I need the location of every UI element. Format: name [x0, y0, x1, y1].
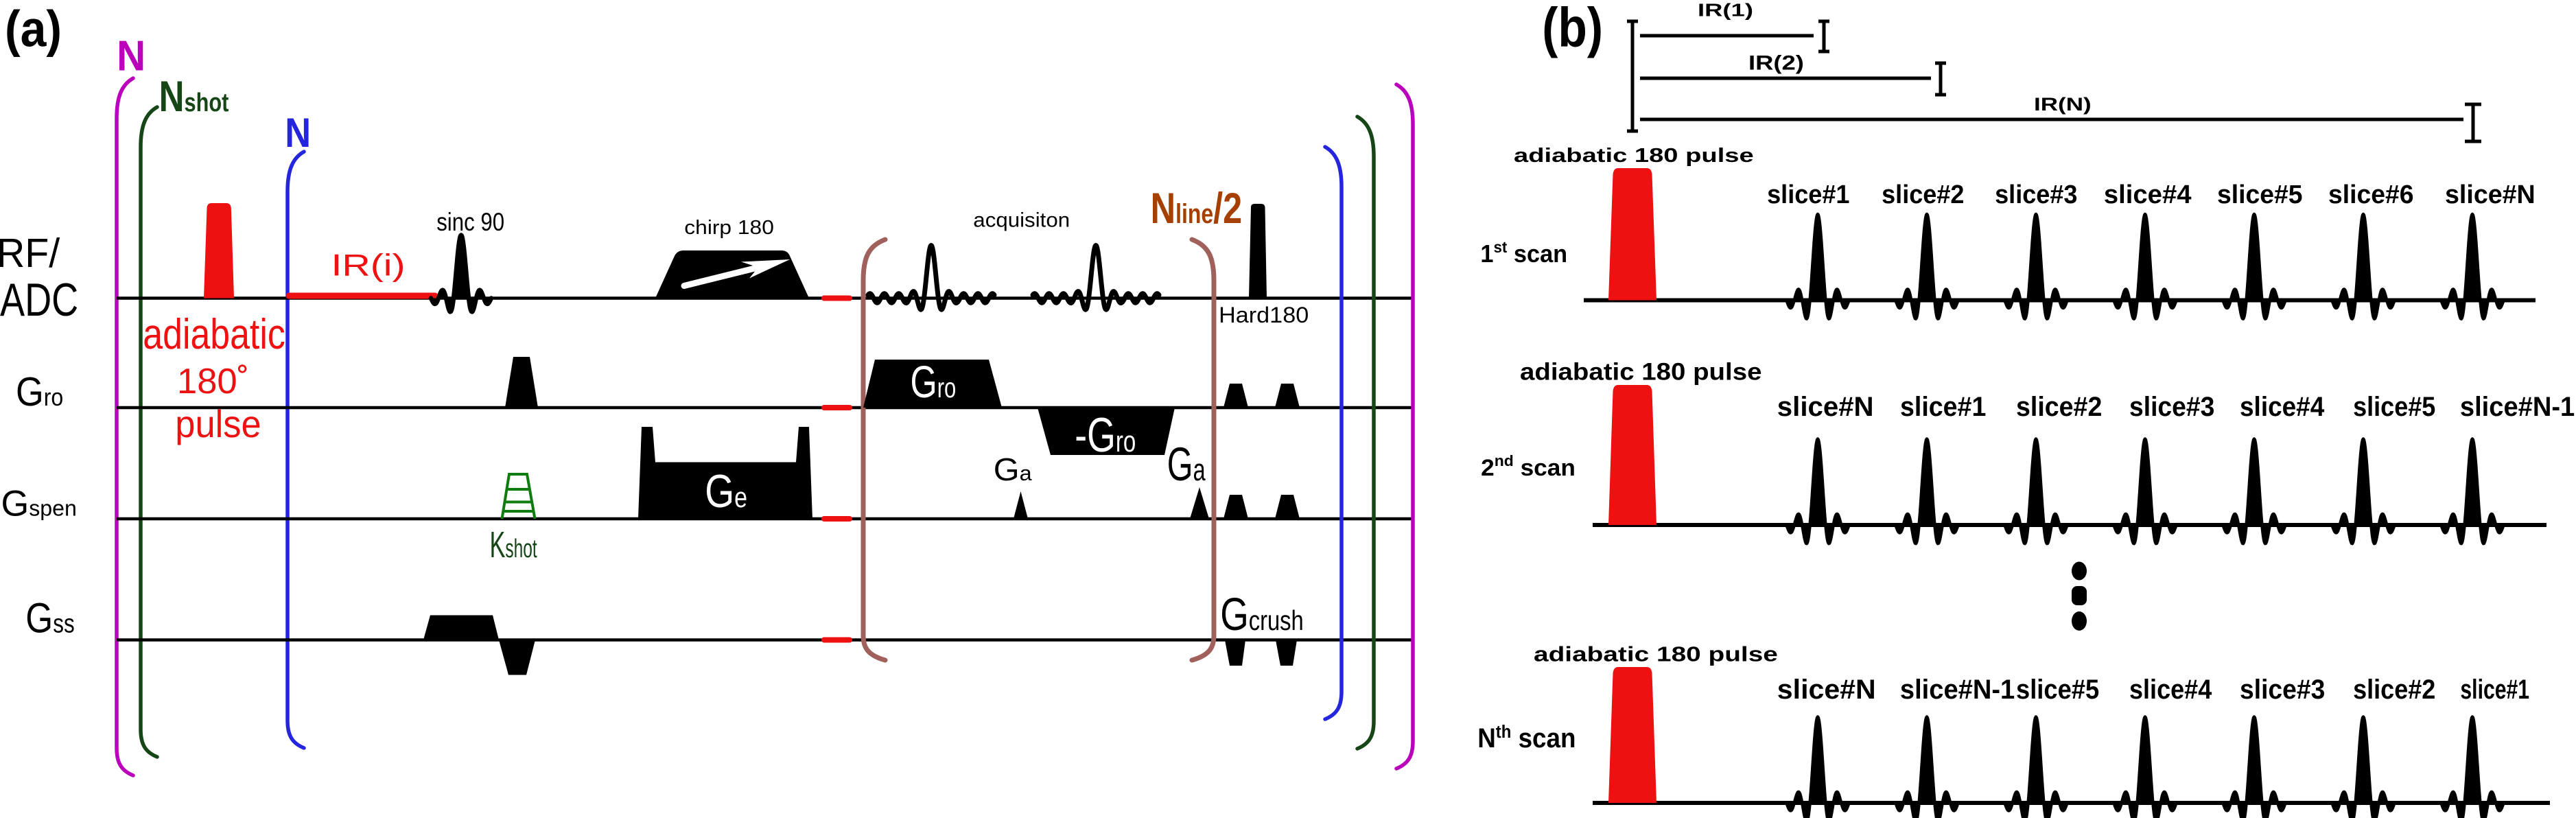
label slice#6 (1st scan, position 6) — [2328, 180, 2414, 210]
svg-text:slice#3: slice#3 — [1995, 179, 2077, 209]
svg-text:(a): (a) — [5, 1, 62, 58]
label IR(i) — [331, 248, 406, 283]
Nth scan baseline wire — [1593, 801, 2550, 805]
label adiabatic 180 pulse (1st scan) — [1514, 145, 1754, 166]
label adiabatic 180 pulse (red text) — [143, 311, 285, 358]
svg-text:IR(1): IR(1) — [1698, 0, 1753, 20]
chirp frequency-sweep arrow (white) — [684, 266, 763, 286]
red break dash on Gro line — [824, 405, 850, 410]
svg-text:slice#N: slice#N — [1777, 674, 1876, 705]
svg-text:180˚: 180˚ — [177, 362, 249, 401]
Gcrush crusher 2 (below Gss line) — [1276, 640, 1297, 666]
Gss rephase trapezoid (negative) — [499, 640, 535, 675]
svg-text:Kshot: Kshot — [490, 524, 537, 565]
axis label Gspen — [1, 484, 77, 524]
Gss slice-select trapezoid (positive) — [423, 616, 499, 640]
svg-text:slice#1: slice#1 — [1767, 179, 1849, 209]
2nd scan adiabatic 180 pulse (red) — [1608, 385, 1656, 525]
svg-text:slice#4: slice#4 — [2104, 180, 2192, 209]
closing bracket N (blue, right) — [1325, 147, 1342, 719]
label slice#5 (Nth scan, position 3) — [2016, 675, 2099, 705]
label Ga 2 — [1167, 438, 1206, 491]
Gro baseline wire — [117, 406, 1414, 410]
red break dash on Gss line — [824, 638, 850, 643]
1st scan slice sinc pulse 1 — [1787, 214, 1849, 319]
Nth scan slice sinc pulse 4 — [2114, 717, 2176, 818]
repetition bracket N (blue, left) — [288, 152, 304, 748]
1st scan slice sinc pulse 2 — [1896, 214, 1958, 319]
vertical ellipsis dots — [2072, 562, 2087, 631]
IR(N) delay line — [1640, 118, 2463, 121]
label Nth scan — [1477, 722, 1576, 753]
Gro crusher trapezoid 2 — [1275, 384, 1300, 408]
acquisition echo wavelet 2 — [1033, 246, 1159, 310]
IR(1) end marker — [1818, 21, 1829, 51]
label 2nd scan — [1481, 452, 1576, 480]
svg-text:slice#N-1: slice#N-1 — [1900, 675, 2015, 705]
IR(2) delay line — [1640, 77, 1931, 80]
svg-text:sinc 90: sinc 90 — [436, 209, 504, 237]
svg-text:slice#2: slice#2 — [2016, 392, 2102, 422]
IR(i) red delay segment on RF line — [289, 293, 435, 299]
svg-text:slice#5: slice#5 — [2353, 392, 2435, 422]
svg-text:(b): (b) — [1542, 0, 1603, 58]
svg-text:Gro: Gro — [16, 369, 63, 414]
1st scan slice sinc pulse 5 — [2223, 214, 2285, 319]
label slice#3 (1st scan, position 3) — [1995, 179, 2077, 209]
svg-text:Ga: Ga — [994, 452, 1032, 488]
label Kshot (dark green) — [490, 524, 537, 565]
axis label RF/ADC — [0, 231, 60, 276]
label sinc 90 — [436, 209, 504, 237]
acquisition echo wavelet 1 — [868, 246, 994, 310]
sinc 90 pulse — [431, 235, 491, 312]
Gro crusher trapezoid 1 — [1223, 384, 1248, 408]
svg-text:slice#N: slice#N — [2445, 180, 2536, 209]
label Nline/2 (dark orange) — [1151, 185, 1243, 233]
svg-text:slice#N-1: slice#N-1 — [2460, 392, 2575, 422]
label N (blue) — [285, 110, 311, 156]
Nth scan slice sinc pulse 5 — [2223, 717, 2285, 818]
Nth scan adiabatic 180 pulse (red) — [1608, 667, 1656, 803]
label slice#5 (2nd scan, position 6) — [2353, 392, 2435, 422]
label slice#N (1st scan, position 7) — [2445, 180, 2536, 209]
label 1st scan — [1480, 237, 1567, 268]
2nd scan slice sinc pulse 7 — [2442, 439, 2503, 544]
label -Gro (white, inside pulse) — [1075, 408, 1136, 463]
label IR(2) — [1748, 51, 1804, 74]
chirp 180 pulse (trapezoid) — [655, 250, 809, 299]
svg-text:slice#4: slice#4 — [2240, 392, 2325, 423]
svg-text:IR(i): IR(i) — [331, 248, 406, 283]
svg-text:slice#1: slice#1 — [2460, 675, 2529, 705]
axis label Gss — [25, 594, 74, 641]
label slice#2 (1st scan, position 2) — [1882, 179, 1964, 209]
Ga spoiler triangle 1 — [1014, 491, 1028, 519]
2nd scan slice sinc pulse 1 — [1787, 439, 1849, 544]
red break dash on RF line — [824, 296, 850, 301]
adiabatic 180 pulse (red trapezoid, RF line) — [204, 203, 234, 299]
svg-text:IR(N): IR(N) — [2034, 94, 2092, 115]
label Ga 1 — [994, 452, 1032, 488]
label slice#4 (2nd scan, position 5) — [2240, 392, 2325, 423]
label slice#3 (Nth scan, position 5) — [2240, 675, 2325, 705]
label Gro (white, inside pulse) — [911, 358, 957, 408]
IR(N) end marker — [2465, 104, 2481, 141]
svg-text:slice#1: slice#1 — [1900, 392, 1986, 422]
Nth scan slice sinc pulse 2 — [1896, 717, 1958, 818]
svg-text:slice#N: slice#N — [1777, 392, 1874, 422]
label slice#1 (1st scan, position 1) — [1767, 179, 1849, 209]
Nth scan slice sinc pulse 6 — [2332, 717, 2394, 818]
IR reference start bar — [1627, 21, 1638, 131]
svg-text:slice#5: slice#5 — [2217, 180, 2303, 210]
svg-text:Ga: Ga — [1167, 438, 1206, 491]
svg-text:Hard180: Hard180 — [1219, 303, 1309, 328]
1st scan baseline wire — [1584, 299, 2536, 303]
Hard180 pulse (tall bar) — [1249, 204, 1267, 299]
IR(1) delay line — [1640, 34, 1814, 38]
svg-text:slice#6: slice#6 — [2328, 180, 2414, 210]
svg-text:slice#3: slice#3 — [2129, 392, 2214, 422]
repetition bracket N (magenta, left) — [117, 78, 133, 775]
label slice#N (Nth scan, position 1) — [1777, 674, 1876, 705]
closing bracket Nshot (dark green, right) — [1357, 117, 1374, 749]
svg-text:2nd scan: 2nd scan — [1481, 452, 1576, 480]
svg-text:ADC: ADC — [0, 273, 78, 325]
svg-text:N: N — [117, 31, 145, 79]
2nd scan baseline wire — [1593, 523, 2546, 527]
svg-text:pulse: pulse — [175, 403, 261, 445]
label slice#1 (Nth scan, position 7) — [2460, 675, 2529, 705]
svg-text:adiabatic 180 pulse: adiabatic 180 pulse — [1520, 358, 1761, 385]
label adiabatic 180 pulse (Nth scan) — [1534, 642, 1778, 666]
svg-text:Nth scan: Nth scan — [1477, 722, 1576, 753]
panel (a) label — [5, 1, 62, 58]
acquisition-block open bracket (brown) — [863, 239, 885, 660]
svg-text:slice#2: slice#2 — [1882, 179, 1964, 209]
svg-text:slice#5: slice#5 — [2016, 675, 2099, 705]
Gspen crusher trapezoid 2 — [1275, 495, 1300, 519]
Nth scan slice sinc pulse 7 — [2442, 717, 2503, 818]
label IR(1) — [1698, 0, 1753, 20]
1st scan slice sinc pulse 4 — [2114, 214, 2176, 319]
panel (b) label — [1542, 0, 1603, 58]
svg-text:adiabatic 180 pulse: adiabatic 180 pulse — [1514, 145, 1754, 166]
1st scan slice sinc pulse 3 — [2005, 214, 2067, 319]
Gro prephase trapezoid pulse — [505, 357, 538, 408]
1st scan slice sinc pulse 6 — [2332, 214, 2394, 319]
Nth scan slice sinc pulse 3 — [2005, 717, 2067, 818]
label slice#2 (Nth scan, position 6) — [2353, 675, 2435, 705]
label Ge (white, inside pulse) — [705, 466, 747, 517]
label slice#N (2nd scan, position 1) — [1777, 392, 1874, 422]
2nd scan slice sinc pulse 6 — [2332, 439, 2394, 544]
label slice#N-1 (2nd scan, position 7) — [2460, 392, 2575, 422]
2nd scan slice sinc pulse 5 — [2223, 439, 2285, 544]
Gro readout trapezoid pulse — [863, 360, 1002, 408]
svg-text:1st scan: 1st scan — [1480, 237, 1567, 268]
label IR(N) — [2034, 94, 2092, 115]
label slice#N-1 (Nth scan, position 2) — [1900, 675, 2015, 705]
svg-text:Gss: Gss — [25, 594, 74, 641]
label acquisiton — [973, 209, 1070, 231]
2nd scan slice sinc pulse 2 — [1896, 439, 1958, 544]
RF/ADC baseline wire — [117, 296, 1414, 300]
label slice#4 (1st scan, position 4) — [2104, 180, 2192, 209]
svg-text:Gspen: Gspen — [1, 484, 77, 524]
svg-text:acquisiton: acquisiton — [973, 209, 1070, 231]
label slice#5 (1st scan, position 5) — [2217, 180, 2303, 210]
label Nshot (dark green) — [159, 73, 229, 121]
Gspen baseline wire — [117, 517, 1414, 521]
svg-text:N: N — [285, 110, 311, 156]
2nd scan slice sinc pulse 4 — [2114, 439, 2176, 544]
Gspen crusher trapezoid 1 — [1223, 495, 1248, 519]
Gss baseline wire — [117, 638, 1414, 642]
label slice#3 (2nd scan, position 4) — [2129, 392, 2214, 422]
Gcrush crusher 1 (below Gss line) — [1225, 640, 1245, 666]
closing bracket N (magenta, right) — [1396, 84, 1413, 769]
label N (magenta) — [117, 31, 145, 79]
red break dash on Gspen line — [824, 516, 850, 522]
acquisition-block close bracket (brown) — [1192, 239, 1214, 660]
Ge encoding pulse with end spikes — [638, 427, 812, 519]
Nth scan slice sinc pulse 1 — [1787, 717, 1849, 818]
svg-text:adiabatic 180 pulse: adiabatic 180 pulse — [1534, 642, 1778, 666]
svg-text:Nshot: Nshot — [159, 73, 229, 121]
Ga spoiler triangle 2 — [1190, 487, 1209, 519]
axis label Gro — [16, 369, 63, 414]
1st scan adiabatic 180 pulse (red) — [1608, 168, 1656, 301]
svg-text:chirp 180: chirp 180 — [684, 217, 774, 238]
svg-text:IR(2): IR(2) — [1748, 51, 1804, 74]
label adiabatic 180 pulse (2nd scan) — [1520, 358, 1761, 385]
label slice#2 (2nd scan, position 3) — [2016, 392, 2102, 422]
-Gro negative readout trapezoid pulse — [1038, 408, 1175, 455]
repetition bracket Nshot (dark green, left) — [141, 107, 157, 757]
1st scan slice sinc pulse 7 — [2442, 214, 2503, 319]
Kshot ladder symbol (green trapezoid with rungs) — [502, 474, 535, 519]
svg-text:Nline/2: Nline/2 — [1151, 185, 1243, 233]
2nd scan slice sinc pulse 3 — [2005, 439, 2067, 544]
label Gcrush — [1220, 588, 1304, 640]
label slice#1 (2nd scan, position 2) — [1900, 392, 1986, 422]
svg-text:adiabatic: adiabatic — [143, 311, 285, 358]
IR(2) end marker — [1935, 63, 1946, 95]
label chirp 180 — [684, 217, 774, 238]
svg-text:Gcrush: Gcrush — [1220, 588, 1304, 640]
svg-text:slice#4: slice#4 — [2129, 675, 2212, 705]
svg-text:slice#2: slice#2 — [2353, 675, 2435, 705]
svg-text:RF/: RF/ — [0, 231, 60, 276]
label slice#4 (Nth scan, position 4) — [2129, 675, 2212, 705]
svg-text:slice#3: slice#3 — [2240, 675, 2325, 705]
label Hard180 — [1219, 303, 1309, 328]
